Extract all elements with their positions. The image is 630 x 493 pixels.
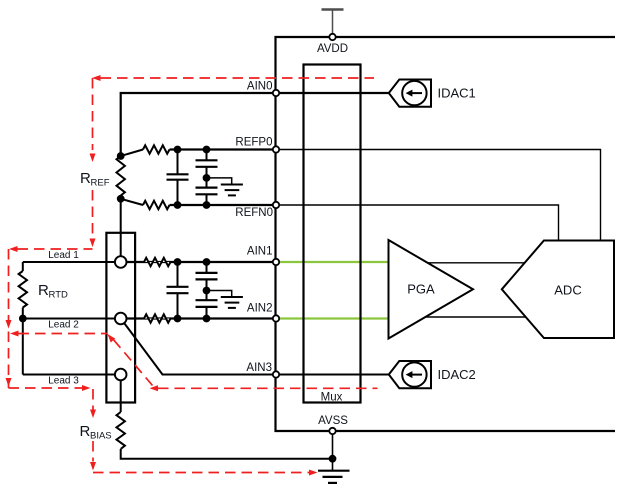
- arrow IDAC2 up-left at terminal 2: [108, 334, 116, 343]
- svg-text:REF: REF: [91, 178, 110, 189]
- wire REFN0 net external: [170, 204, 277, 206]
- node AIN1 diff cap: [174, 258, 182, 266]
- svg-text:AVSS: AVSS: [318, 415, 348, 427]
- label R_REF: [78, 170, 107, 187]
- wire R_BIAS to AVSS node: [121, 449, 333, 459]
- svg-text:Lead 1: Lead 1: [48, 250, 79, 261]
- ground AVSS: [318, 470, 350, 472]
- wire R_REF bottom to terminal 1: [120, 199, 122, 262]
- capacitor REFN0 to gnd: [206, 178, 208, 188]
- current path far-left down dashed: [8, 249, 10, 388]
- current path IDAC1 Lead1 dashed: [18, 248, 93, 250]
- pin AIN2: [273, 315, 279, 321]
- node AIN2 gnd cap: [203, 315, 211, 323]
- wire AIN2 green to PGA: [276, 317, 389, 319]
- arrow IDAC2 left: [150, 385, 159, 391]
- capacitor AIN differential: [177, 262, 179, 287]
- wire AVDD supply stem: [332, 10, 334, 38]
- mux block: [304, 65, 361, 403]
- arrow right into ground: [309, 470, 318, 476]
- svg-text:REFP0: REFP0: [235, 137, 272, 149]
- arrow down at bottom corner: [90, 462, 96, 471]
- pin REFN0: [273, 202, 279, 208]
- wire terminal 3 to R_BIAS: [120, 380, 122, 412]
- node R_REF top: [117, 152, 125, 160]
- wire RTD junction down: [22, 319, 24, 375]
- current path IDAC1 top dashed: [101, 77, 375, 79]
- terminal 1: [115, 256, 127, 268]
- pin AVSS: [329, 428, 335, 434]
- arrow IDAC2 left at far-left: [10, 331, 19, 337]
- svg-text:AIN0: AIN0: [247, 81, 273, 93]
- wire AIN3 net: [124, 323, 388, 374]
- resistor R_RTD: [22, 262, 24, 271]
- node REFP0 diff cap: [174, 146, 182, 154]
- pin REFP0: [273, 146, 279, 152]
- block ADC: [502, 241, 614, 339]
- supply bar AVDD: [322, 8, 344, 10]
- op-amp PGA: [389, 240, 474, 339]
- svg-text:R: R: [38, 282, 49, 299]
- arrow down above R_BIAS label: [90, 410, 96, 419]
- node R_REF bottom: [117, 195, 125, 203]
- resistor R_REF: [117, 156, 125, 196]
- wire Lead 2: [23, 318, 121, 320]
- terminal block J1: [106, 233, 135, 403]
- capacitor REF differential: [177, 150, 179, 175]
- node R_BIAS/AVSS junction: [329, 455, 337, 463]
- current path IDAC2 AIN3 dashed: [158, 387, 378, 389]
- current path IDAC1 down R_REF dashed: [92, 78, 94, 150]
- svg-text:RTD: RTD: [49, 290, 68, 301]
- wire AIN1 green to PGA: [276, 261, 389, 263]
- chip outline U1 (ADC device boundary): [276, 37, 616, 431]
- svg-text:AVDD: AVDD: [317, 43, 348, 55]
- current path bottom to ground dashed: [93, 472, 309, 474]
- svg-text:IDAC1: IDAC1: [438, 86, 476, 101]
- arrow combined current down: [6, 320, 12, 329]
- resistor REFN0 filter: [143, 201, 169, 209]
- ground AIN filter: [207, 291, 232, 298]
- wire REFN0 routing to ADC: [276, 205, 559, 241]
- pin AVDD: [329, 34, 335, 40]
- node REFP0 gnd cap: [203, 146, 211, 154]
- label R_BIAS: [78, 423, 108, 438]
- svg-text:AIN3: AIN3: [246, 362, 272, 374]
- resistor REFP0 filter: [143, 145, 169, 153]
- svg-text:REFN0: REFN0: [235, 207, 273, 219]
- current path IDAC2 diagonal dashed: [113, 339, 153, 386]
- node AIN1 gnd cap: [203, 258, 211, 266]
- svg-text:Mux: Mux: [321, 392, 343, 404]
- arrow IDAC1 left at AIN0 corner: [92, 75, 101, 81]
- arrow IDAC1 left at far-left corner: [9, 246, 18, 252]
- node REF mid: [203, 174, 211, 182]
- capacitor AIN1 to gnd: [206, 262, 208, 273]
- capacitor AIN2 to gnd: [206, 291, 208, 301]
- arrow IDAC1 down at Lead1 corner: [90, 239, 96, 248]
- node REFN0 gnd cap: [203, 201, 211, 209]
- wire AIN0 net (R_REF top to IDAC1 via pin AIN0): [121, 93, 389, 156]
- svg-text:PGA: PGA: [407, 282, 435, 297]
- arrow down at Lead3 corner: [6, 378, 12, 387]
- svg-text:ADC: ADC: [554, 283, 581, 298]
- wire AIN1 external: [121, 261, 276, 263]
- resistor AIN1 filter: [144, 258, 170, 266]
- svg-text:AIN2: AIN2: [247, 303, 273, 315]
- wire AIN2 external: [121, 317, 276, 319]
- node REFN0 diff cap: [174, 201, 182, 209]
- svg-text:AIN1: AIN1: [247, 246, 273, 258]
- svg-text:IDAC2: IDAC2: [438, 367, 476, 382]
- capacitor REFP0 to gnd: [206, 150, 208, 161]
- pin AIN1: [273, 259, 279, 265]
- svg-text:Lead 3: Lead 3: [48, 376, 79, 387]
- current path down R_BIAS dashed: [92, 389, 94, 410]
- arrow right at R_BIAS corner: [82, 385, 91, 391]
- wire R_REF top to filter resistor: [121, 150, 143, 157]
- svg-text:Lead 2: Lead 2: [48, 320, 79, 331]
- resistor AIN2 filter: [144, 314, 170, 322]
- current path Lead3 dashed: [9, 387, 83, 389]
- wire PGA out lower: [426, 316, 525, 318]
- svg-text:R: R: [80, 170, 91, 187]
- wire mux to IDAC2: [361, 374, 389, 376]
- node AIN2 diff cap: [174, 315, 182, 323]
- current path IDAC2 Lead2 dashed: [19, 333, 108, 335]
- wire mux to IDAC1: [361, 92, 389, 94]
- wire REFP0 routing to ADC: [276, 150, 601, 241]
- current source IDAC1: [389, 80, 431, 107]
- svg-text:BIAS: BIAS: [90, 431, 112, 442]
- wire AVSS pin to ground: [332, 431, 334, 470]
- pin AIN3: [273, 371, 279, 377]
- node AIN mid: [203, 287, 211, 295]
- svg-text:R: R: [80, 423, 91, 440]
- terminal 2: [115, 313, 127, 325]
- node RTD lead2/lead3: [19, 315, 27, 323]
- current source IDAC2: [389, 361, 431, 388]
- wire Lead 3: [23, 374, 121, 376]
- wire REFP0 net external: [170, 148, 277, 150]
- arrow IDAC1 down mid: [90, 154, 96, 163]
- resistor R_BIAS: [117, 412, 125, 449]
- wire Lead 1: [23, 261, 121, 263]
- pin AIN0: [273, 90, 279, 96]
- terminal 3: [115, 369, 127, 381]
- wire PGA out upper: [428, 262, 525, 264]
- ground REF filter: [207, 178, 232, 185]
- wire R_REF bottom to filter resistor: [121, 199, 143, 205]
